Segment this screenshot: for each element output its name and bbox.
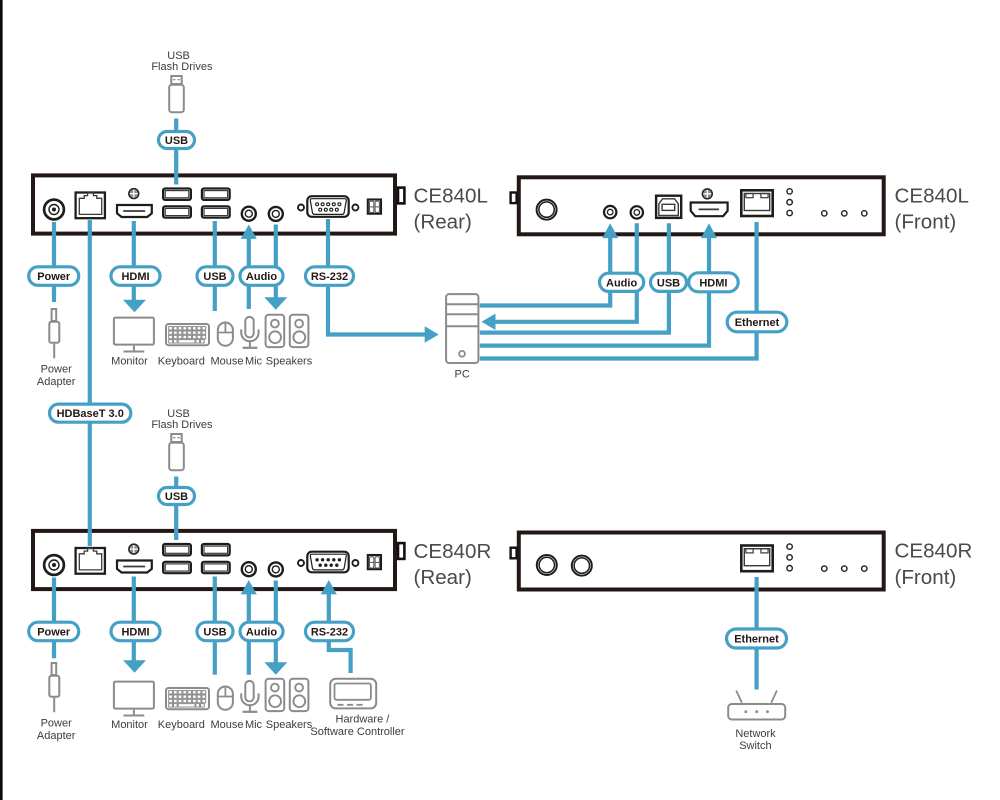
svg-text:Network: Network	[735, 728, 776, 740]
svg-text:Switch: Switch	[739, 740, 771, 752]
pill Audio (rear R)	[240, 622, 283, 641]
svg-text:CE840R: CE840R	[895, 540, 973, 563]
arrow front HDMI up	[701, 223, 717, 238]
USB ports 2x2 (rear R)	[163, 544, 230, 573]
PC tower	[446, 294, 478, 381]
LED row (front L)	[822, 211, 867, 216]
console icons (bottom row)	[111, 679, 313, 731]
wire USB (rear L)	[213, 221, 217, 311]
HDMI port (rear R)	[117, 561, 152, 573]
svg-text:USB: USB	[167, 408, 190, 420]
microphone (top)	[241, 317, 258, 348]
front circle 2 R	[572, 556, 592, 576]
svg-text:(Front): (Front)	[895, 566, 957, 589]
svg-text:Ethernet: Ethernet	[734, 633, 779, 645]
svg-text:Keyboard: Keyboard	[158, 356, 205, 368]
wire front audio1 to PC line1	[480, 237, 610, 305]
hardware/software controller	[310, 679, 404, 738]
svg-text:HDBaseT 3.0: HDBaseT 3.0	[57, 408, 124, 420]
pill RS-232 (rear R)	[306, 622, 354, 641]
arrow audio2 into PC	[482, 314, 496, 330]
pill USB (rear R)	[197, 622, 233, 641]
pill Ethernet (front L)	[727, 312, 787, 332]
page left edge bar	[0, 0, 3, 800]
svg-text:Ethernet: Ethernet	[735, 317, 780, 329]
svg-text:Speakers: Speakers	[266, 356, 313, 368]
svg-text:Audio: Audio	[246, 626, 277, 638]
svg-text:USB: USB	[165, 491, 188, 503]
pill Ethernet (front R)	[727, 629, 787, 648]
svg-text:Keyboard: Keyboard	[158, 719, 205, 731]
console icons (top row)	[111, 315, 313, 368]
wire front audio2 to PC line2	[495, 223, 637, 321]
wire RS-232 (rear R)	[327, 593, 331, 622]
svg-text:Audio: Audio	[246, 271, 277, 283]
wire audio jack1 (rear L)	[247, 238, 251, 267]
wire front Ethernet to PC line5	[480, 222, 757, 359]
svg-text:USB: USB	[165, 135, 188, 147]
speakers (top)	[266, 315, 309, 347]
svg-text:(Rear): (Rear)	[414, 566, 472, 589]
arrow HDMI down (rear R)	[123, 660, 146, 673]
svg-text:Mic: Mic	[245, 719, 263, 731]
arrow audio down (rear L)	[264, 297, 287, 310]
pill HDMI (rear L)	[111, 267, 160, 286]
svg-text:Software Controller: Software Controller	[310, 726, 404, 738]
wire USB flash to rear R panel	[174, 477, 178, 541]
pill HDMI (front L)	[689, 273, 739, 292]
arrow audio jack1 up (rear L)	[241, 225, 257, 239]
wire HDMI (rear R)	[132, 577, 136, 662]
arrow front audio1 up	[602, 223, 618, 238]
grounding screw (rear R)	[129, 544, 139, 554]
svg-text:CE840L: CE840L	[414, 185, 488, 208]
microphone (bottom)	[241, 681, 258, 712]
keyboard (bottom)	[166, 688, 209, 709]
USB ports 2x2 (rear L)	[163, 189, 230, 218]
terminal block (rear L)	[368, 200, 381, 214]
network switch	[728, 691, 785, 752]
svg-text:Monitor: Monitor	[111, 719, 148, 731]
wire audio jack1 below pill (rear R)	[247, 641, 251, 675]
terminal block (rear R)	[368, 555, 381, 569]
CE840R rear mounting tab	[398, 543, 404, 559]
svg-text:Mic: Mic	[245, 356, 263, 368]
wire Ethernet (front R) to network switch	[754, 577, 758, 690]
RJ45 port (front L)	[741, 190, 772, 216]
wire USB flash to rear L panel	[174, 119, 178, 185]
wire audio jack1 below pill (rear L)	[247, 285, 251, 309]
wire USB (rear R)	[213, 577, 217, 675]
pill Power (rear R)	[29, 622, 79, 641]
svg-text:HDMI: HDMI	[121, 626, 149, 638]
arrow audio jack1 up (rear R)	[241, 580, 257, 594]
pill USB (front L)	[651, 273, 687, 291]
USB-B port (front L)	[656, 196, 681, 218]
front circle 1 R	[537, 555, 557, 575]
audio jack 1 (rear L)	[242, 207, 256, 221]
wire audio jack2 (rear R)	[274, 581, 278, 664]
wire front HDMI to PC line4	[480, 237, 709, 345]
arrow audio down (rear R)	[264, 662, 287, 675]
svg-text:(Rear): (Rear)	[414, 211, 472, 234]
audio jack 2 (rear L)	[269, 207, 283, 221]
CE840R rear panel	[33, 531, 404, 589]
grounding screw (front L)	[702, 189, 712, 199]
LED row (front R)	[822, 566, 867, 571]
svg-text:Power: Power	[41, 364, 73, 376]
CE840L rear panel	[33, 175, 404, 233]
RJ45 port (rear L)	[76, 193, 105, 219]
svg-text:HDMI: HDMI	[121, 271, 149, 283]
svg-text:Flash Drives: Flash Drives	[151, 61, 213, 73]
LED column (front R)	[787, 544, 792, 571]
pill USB (rear L)	[197, 267, 233, 286]
mouse (bottom)	[217, 686, 234, 710]
wire audio jack2 (rear L)	[274, 225, 278, 299]
svg-text:Flash Drives: Flash Drives	[151, 419, 213, 431]
DB9 RS-232 port (rear R)	[298, 552, 358, 573]
CE840R front panel	[511, 533, 884, 590]
RJ45 port (front R)	[741, 546, 772, 572]
power jack (rear R)	[44, 555, 64, 575]
svg-text:Mouse: Mouse	[210, 356, 243, 368]
audio jack 2 (rear R)	[269, 562, 283, 576]
pill Audio (front L)	[600, 273, 644, 291]
svg-text:Hardware /: Hardware /	[336, 714, 391, 726]
wire power (rear L)	[52, 222, 56, 302]
svg-text:Adapter: Adapter	[37, 730, 76, 742]
wire HDMI (rear L)	[132, 221, 136, 301]
svg-text:RS-232: RS-232	[311, 271, 348, 283]
front audio jack 1 L	[604, 206, 616, 218]
USB flash drive (top)	[151, 50, 213, 112]
CE840L rear mounting tab	[398, 188, 404, 204]
DB9 RS-232 port (rear L)	[298, 196, 358, 217]
svg-text:Audio: Audio	[606, 277, 637, 289]
svg-text:(Front): (Front)	[895, 211, 957, 234]
power jack (rear L)	[44, 200, 64, 220]
wire audio jack1 (rear R)	[247, 593, 251, 622]
svg-text:PC: PC	[455, 369, 470, 381]
speakers (bottom)	[266, 679, 309, 711]
pill Audio (rear L)	[240, 267, 283, 286]
front power circle L	[537, 200, 557, 220]
svg-text:RS-232: RS-232	[311, 626, 348, 638]
keyboard (top)	[166, 324, 209, 345]
svg-text:USB: USB	[203, 271, 226, 283]
HDMI port (rear L)	[117, 205, 152, 217]
svg-text:HDMI: HDMI	[699, 277, 727, 289]
pill USB (mid flash)	[159, 488, 195, 505]
CE840R front mounting tab	[511, 548, 517, 559]
wire RS-232 (rear L) to PC	[328, 219, 425, 335]
LED column (front L)	[787, 189, 792, 216]
pill USB (top flash)	[159, 132, 195, 149]
USB flash drive (middle)	[151, 408, 213, 470]
svg-text:Power: Power	[41, 718, 73, 730]
arrow RS-232 into PC	[425, 326, 439, 342]
mouse (top)	[217, 322, 234, 346]
CE840L front panel	[511, 177, 884, 234]
pill Power (rear L)	[29, 267, 79, 286]
power adapter (bottom)	[37, 663, 76, 742]
wire RS-232 to controller	[329, 641, 351, 673]
monitor (bottom)	[114, 682, 154, 716]
wire HDBaseT link	[88, 220, 92, 546]
svg-text:Adapter: Adapter	[37, 376, 76, 388]
svg-text:Speakers: Speakers	[266, 719, 313, 731]
svg-text:USB: USB	[167, 50, 190, 62]
audio jack 1 (rear R)	[242, 562, 256, 576]
svg-text:Power: Power	[37, 626, 71, 638]
svg-text:USB: USB	[657, 277, 680, 289]
svg-text:Monitor: Monitor	[111, 356, 148, 368]
pill HDMI (rear R)	[111, 622, 160, 641]
RJ45 port (rear R)	[76, 548, 105, 574]
arrow RS-232 up (rear R)	[321, 580, 337, 594]
wire power (rear R)	[52, 578, 56, 659]
power adapter (top)	[37, 309, 76, 388]
svg-text:Power: Power	[37, 271, 71, 283]
svg-text:CE840L: CE840L	[895, 185, 969, 208]
HDMI port (front L)	[691, 203, 728, 217]
svg-text:CE840R: CE840R	[414, 540, 492, 563]
arrow HDMI down (rear L)	[123, 300, 146, 313]
svg-text:Mouse: Mouse	[210, 719, 243, 731]
CE840L front mounting tab	[511, 193, 517, 204]
grounding screw (rear L)	[129, 189, 139, 199]
front audio jack 2 L	[631, 206, 643, 218]
pill RS-232 (rear L)	[306, 267, 354, 286]
wire front USB to PC line3	[480, 223, 669, 332]
pill HDBaseT 3.0	[50, 404, 131, 422]
svg-text:USB: USB	[203, 626, 226, 638]
monitor (top)	[114, 318, 154, 352]
